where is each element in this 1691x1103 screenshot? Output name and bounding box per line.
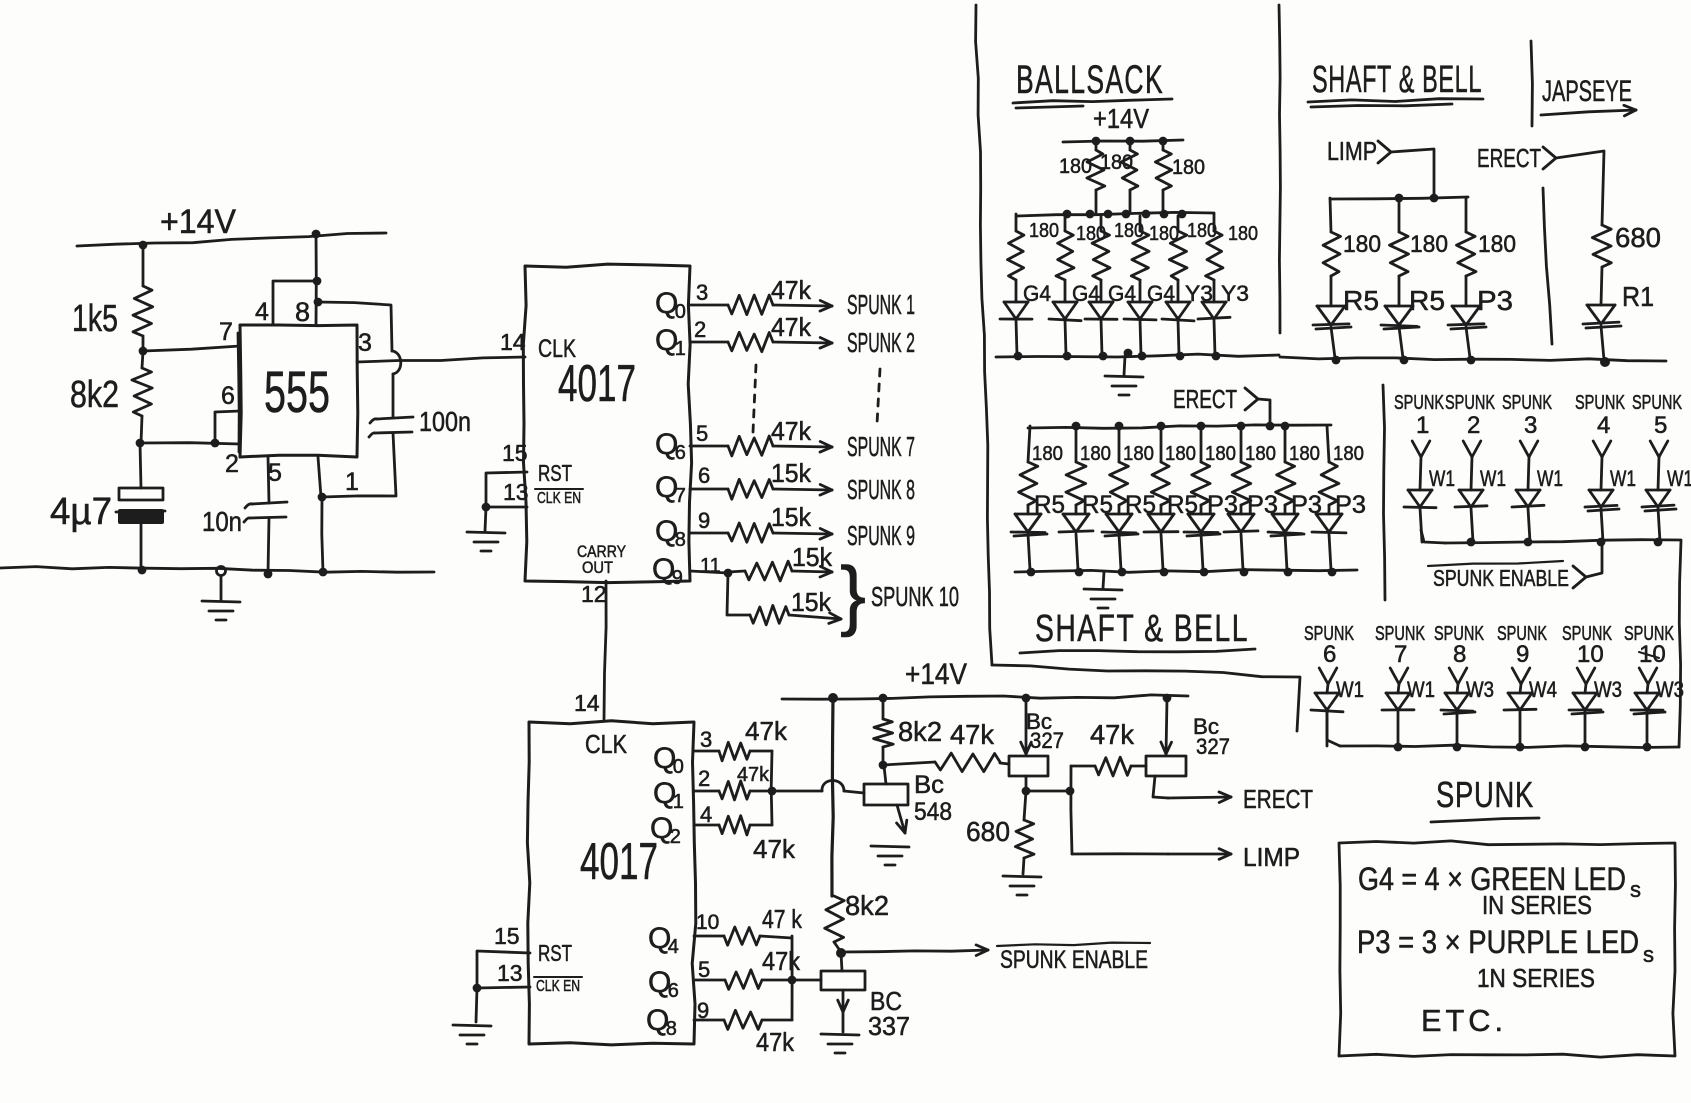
pin 4 wire — [273, 281, 316, 325]
junction shaft bus 1 — [1395, 194, 1404, 203]
junction 4u7 / 0V — [138, 566, 147, 575]
junction Q0-Q2 node — [768, 787, 777, 796]
resistor R 47k to BC327-1 — [883, 753, 1009, 772]
svg-text:LIMP: LIMP — [1243, 842, 1300, 872]
chevron SPUNK ENABLE — [1573, 566, 1586, 588]
svg-text:4017: 4017 — [580, 833, 658, 891]
svg-text:s: s — [1643, 942, 1654, 967]
wire LIMP output — [1072, 852, 1168, 855]
label SPUNK title — [1436, 774, 1534, 815]
svg-text:47k: 47k — [771, 416, 812, 446]
label legend G4 line — [1358, 861, 1641, 902]
svg-text:R5: R5 — [1409, 285, 1445, 316]
labels 180 (shaft top) — [1343, 231, 1516, 258]
svg-text:15k: 15k — [791, 587, 832, 617]
svg-text:47k: 47k — [950, 719, 995, 750]
svg-text:6: 6 — [675, 442, 686, 464]
wire BC548 collector — [884, 766, 886, 784]
U3 Q4 via 47k — [648, 904, 803, 958]
svg-text:8k2: 8k2 — [898, 716, 942, 747]
wire 10n to 0V — [268, 518, 269, 573]
svg-text:180: 180 — [1205, 443, 1236, 465]
svg-text:CLK: CLK — [585, 729, 628, 759]
resistor R 47k to BC327-2 — [1095, 757, 1146, 776]
svg-text:SPUNK 2: SPUNK 2 — [847, 327, 915, 358]
labels 180 (shaft bottom) — [1032, 443, 1364, 465]
LED W1 SPUNK 4 — [1575, 392, 1636, 542]
svg-text:LIMP: LIMP — [1327, 136, 1377, 166]
label SHAFT & BELL title — [1312, 59, 1482, 101]
label ERECT (shaft top) — [1477, 143, 1541, 173]
label 4u7 — [50, 491, 112, 533]
junctions ballsack rail — [1092, 137, 1168, 146]
wire 555 pin3 output to CLK — [357, 357, 525, 362]
LED string P3 #8 (shaft bottom) with 180 — [1312, 426, 1366, 576]
label 555 — [264, 360, 330, 425]
output Q1 row: resistor 47k to SPUNK 2 — [655, 312, 915, 360]
LED string G4 #3 (ballsack) with 180 — [1085, 216, 1136, 360]
svg-text:8k2: 8k2 — [845, 890, 889, 921]
brace SPUNK 10 — [840, 550, 866, 638]
svg-text:15k: 15k — [771, 502, 812, 532]
svg-text:10: 10 — [696, 911, 719, 934]
label 8k2 — [70, 374, 119, 416]
LED string Y3 #6 (ballsack) with 180 — [1198, 214, 1249, 360]
ground left rail — [202, 567, 240, 621]
label SPUNK ENABLE (right) — [1428, 561, 1569, 591]
labels 180 (ballsack columns) — [1029, 220, 1258, 245]
resistor R 680 (japseye) — [1592, 225, 1611, 305]
label legend P3 line — [1357, 924, 1654, 967]
wire mid bus — [1028, 425, 1331, 428]
transistor BC337 emitter arrow — [838, 990, 849, 1032]
svg-text:180: 180 — [1100, 151, 1133, 174]
label pin 14 — [500, 329, 526, 355]
svg-text:8: 8 — [666, 1018, 677, 1040]
output Q0 row: resistor 47k to SPUNK 1 — [655, 275, 915, 323]
svg-text:180: 180 — [1228, 223, 1258, 245]
label 8k2 (enable) — [845, 890, 889, 921]
frame bottom edge — [992, 665, 1300, 731]
label ERECT output — [1243, 784, 1313, 814]
label legend in series 2 — [1477, 963, 1595, 993]
junctions ballsack mid bus — [1063, 210, 1187, 219]
chevron LIMP — [1378, 141, 1391, 163]
label 47k (to BC327-1) — [950, 719, 995, 750]
svg-text:JAPSEYE: JAPSEYE — [1542, 75, 1632, 108]
svg-text:SPUNK: SPUNK — [1575, 392, 1625, 414]
wire RST U2 — [486, 472, 527, 507]
svg-text:9: 9 — [698, 508, 710, 533]
junction RST/CLKEN U2 — [482, 503, 491, 512]
wire enable node to BC337 — [841, 953, 842, 971]
junction rail/8k2-548 — [879, 694, 888, 703]
junction rail/BC327-2 — [1163, 694, 1172, 703]
junction pin2/6 wire — [211, 439, 220, 448]
svg-text:ETC.: ETC. — [1421, 1003, 1507, 1038]
wire 100n upper lead — [392, 374, 395, 417]
svg-text:2: 2 — [694, 317, 706, 342]
svg-text:P3: P3 — [1477, 285, 1513, 316]
U3 Q6 via 47k — [648, 946, 801, 1002]
svg-text:8: 8 — [675, 529, 686, 551]
output Q6 row: resistor 47k to SPUNK 7 — [655, 416, 915, 464]
wire limp node to 47k-2 — [1071, 765, 1095, 768]
svg-text:SPUNK 1: SPUNK 1 — [847, 289, 915, 320]
wire spunk bus row2 — [1327, 711, 1679, 748]
label pin 8 — [295, 297, 310, 327]
label legend in series 1 — [1482, 890, 1592, 920]
label 1k5 — [72, 298, 118, 340]
ground ballsack — [1105, 356, 1143, 395]
LED W1 SPUNK 2 — [1445, 392, 1506, 542]
transistor Q BC327-1 body — [1009, 756, 1048, 776]
svg-text:47k: 47k — [762, 946, 801, 976]
svg-text:180: 180 — [1165, 443, 1196, 465]
junctions mid bus — [1072, 422, 1290, 431]
wire 100n to pin1 node — [322, 433, 396, 497]
transistor Q BC548 body — [864, 784, 908, 805]
LED string R5 #3 (shaft bottom) with 180 — [1102, 426, 1156, 576]
label LIMP (shaft) — [1327, 136, 1377, 166]
label pin 3 — [358, 329, 372, 357]
wire +14V top rail — [77, 233, 386, 246]
junction rail/BC327-1 — [1022, 694, 1031, 703]
label pin 4 — [255, 298, 269, 326]
svg-text:180: 180 — [1149, 223, 1179, 245]
wire spunk bus row1 — [1421, 530, 1681, 543]
LED string G4 #2 (ballsack) with 180 — [1049, 216, 1100, 360]
IC U1 555 box — [238, 325, 358, 457]
svg-text:4: 4 — [700, 802, 712, 827]
svg-text:47k: 47k — [745, 716, 788, 746]
junction top rail / 1k5 — [139, 241, 148, 250]
label pin 15 (U3) — [494, 923, 520, 949]
svg-text:3: 3 — [358, 329, 372, 357]
svg-text:13: 13 — [503, 479, 529, 505]
junction limp node — [1066, 787, 1075, 796]
underline SPUNK — [1431, 818, 1539, 822]
junction pin4/pin8 node — [313, 277, 322, 286]
label +14V supply — [160, 203, 236, 241]
frame left border — [976, 5, 992, 665]
svg-text:8k2: 8k2 — [70, 374, 119, 416]
IC U3 4017 box — [527, 721, 695, 1045]
wire ballsack mid bus — [1017, 212, 1214, 216]
svg-text:3: 3 — [700, 727, 712, 752]
capacitor C 4u7 electrolytic — [116, 443, 165, 570]
svg-text:1: 1 — [675, 338, 686, 360]
LED W3 SPUNK 10 (row2) — [1562, 623, 1622, 746]
svg-text:SPUNK 10: SPUNK 10 — [871, 581, 959, 612]
svg-text:7: 7 — [1394, 641, 1407, 668]
svg-text:13: 13 — [497, 960, 523, 986]
svg-text:180: 180 — [1245, 443, 1276, 465]
svg-text:6: 6 — [668, 980, 679, 1002]
svg-text:180: 180 — [1343, 231, 1381, 258]
label 8k2 (BC548) — [898, 716, 942, 747]
wire ERECT mid to bus — [1258, 399, 1270, 426]
junction pin8 / 100n branch — [314, 298, 323, 307]
junction RST/CLKEN U3 — [473, 984, 482, 993]
svg-text:P3: P3 — [1335, 491, 1366, 519]
svg-text:W1: W1 — [1429, 466, 1455, 491]
label pin 5 — [268, 459, 282, 487]
svg-text:100n: 100n — [419, 406, 471, 437]
LED W1 SPUNK 5 — [1632, 392, 1691, 542]
svg-text:+14V: +14V — [905, 658, 967, 691]
label pin 1 — [345, 468, 359, 496]
svg-text:9: 9 — [672, 567, 683, 589]
label CLK EN (U2) — [535, 489, 583, 507]
svg-text:SPUNK ENABLE: SPUNK ENABLE — [1000, 946, 1148, 974]
label pin 15 — [502, 440, 528, 466]
hop over enable line — [822, 781, 844, 792]
svg-text:327: 327 — [1030, 728, 1064, 753]
svg-text:10: 10 — [1577, 641, 1604, 668]
svg-text:47k: 47k — [737, 764, 770, 786]
svg-text:6: 6 — [1323, 641, 1336, 668]
dashed continuation right — [877, 369, 880, 424]
frame divider japseye — [1531, 41, 1532, 126]
underline BALLSACK — [1013, 99, 1172, 108]
underline SHAFT & BELL — [1308, 99, 1483, 107]
transistor Q BC337 body — [821, 971, 865, 990]
svg-text:W1: W1 — [1667, 466, 1691, 491]
capacitor C 100n — [369, 417, 413, 437]
wire collector to limp node — [1026, 790, 1070, 793]
svg-text:7: 7 — [675, 485, 686, 507]
svg-text:47k: 47k — [771, 275, 812, 305]
svg-text:14: 14 — [574, 690, 600, 716]
LED string Y3 #5 (ballsack) with 180 — [1162, 216, 1213, 360]
resistor R 8k2 — [132, 351, 152, 443]
label CLK (U2) — [538, 335, 576, 363]
label BC337 — [868, 986, 910, 1041]
svg-text:180: 180 — [1172, 156, 1205, 179]
svg-text:SHAFT & BELL: SHAFT & BELL — [1312, 59, 1482, 101]
label pin 2 — [225, 450, 239, 478]
wire mid ground rail — [1015, 570, 1357, 573]
wire LIMP to bus — [1391, 149, 1434, 198]
svg-text:SPUNK 8: SPUNK 8 — [847, 474, 915, 505]
arrow ERECT output — [1168, 792, 1231, 803]
svg-text:180: 180 — [1187, 220, 1217, 242]
svg-text:47k: 47k — [756, 1027, 795, 1057]
junction ground rail extra — [1124, 349, 1133, 358]
svg-text:548: 548 — [914, 798, 952, 826]
resistor R 1k5 — [133, 245, 153, 350]
wire ballsack ground rail — [996, 354, 1279, 357]
svg-text:47k: 47k — [1090, 719, 1135, 750]
svg-text:14: 14 — [500, 329, 526, 355]
junction 8k2/47k/collector — [879, 761, 888, 770]
svg-text:CLK EN: CLK EN — [537, 490, 581, 507]
pin 5 wire upper — [268, 457, 269, 503]
svg-text:1k5: 1k5 — [72, 298, 118, 340]
svg-text:6: 6 — [221, 382, 235, 410]
svg-text:5: 5 — [696, 421, 708, 446]
svg-text:}: } — [840, 550, 866, 638]
wire carry out to U3 clock — [604, 581, 606, 719]
svg-text:15: 15 — [494, 923, 520, 949]
label LIMP output — [1243, 842, 1300, 872]
svg-text:SPUNK 7: SPUNK 7 — [847, 431, 915, 462]
resistors 3x 180 (ballsack top) — [1087, 141, 1172, 213]
svg-text:7: 7 — [219, 318, 233, 346]
svg-text:W1: W1 — [1537, 466, 1563, 491]
svg-text:W3: W3 — [1594, 677, 1622, 702]
svg-text:BALLSACK: BALLSACK — [1016, 58, 1164, 102]
wire RST U3 — [477, 951, 530, 988]
ground 680 — [1003, 876, 1041, 895]
LED W1 SPUNK 6 (row2) — [1304, 623, 1364, 746]
junction 10n / 0V — [264, 570, 273, 579]
labels 180 top row — [1059, 151, 1205, 179]
label BC548 — [914, 771, 952, 826]
resistor R 8k2 (enable) — [825, 896, 845, 952]
svg-text:W1: W1 — [1407, 677, 1435, 702]
LED string G4 #1 (ballsack) with 180 — [1000, 214, 1051, 360]
wire 0V bottom rail — [0, 567, 434, 573]
svg-text:R5: R5 — [1034, 491, 1065, 519]
svg-text:10: 10 — [1639, 641, 1666, 668]
svg-text:SHAFT & BELL: SHAFT & BELL — [1035, 608, 1249, 650]
label 47k (to BC327-2) — [1090, 719, 1135, 750]
svg-text:15: 15 — [502, 440, 528, 466]
LED R1 (japseye) — [1583, 305, 1621, 367]
svg-text:SPUNK: SPUNK — [1436, 774, 1534, 815]
svg-text:P3 = 3 × PURPLE LED: P3 = 3 × PURPLE LED — [1357, 924, 1639, 960]
label +14V (U3 rail) — [905, 658, 967, 691]
pin 1 stub — [318, 457, 321, 497]
svg-text:W4: W4 — [1529, 677, 1557, 702]
label CLK (U3) — [585, 729, 628, 759]
svg-text:8: 8 — [1453, 641, 1466, 668]
label RST (U2) — [538, 460, 572, 486]
svg-text:1N SERIES: 1N SERIES — [1477, 963, 1595, 993]
wire shaft/japseye ground rail — [1280, 357, 1666, 361]
svg-text:5: 5 — [268, 459, 282, 487]
svg-text:IN SERIES: IN SERIES — [1482, 890, 1592, 920]
LED string G4 #4 (ballsack) with 180 — [1124, 216, 1175, 360]
svg-text:W3: W3 — [1466, 677, 1494, 702]
svg-text:180: 180 — [1029, 220, 1059, 242]
pin 8 wire — [315, 234, 318, 325]
label BALLSACK title — [1016, 58, 1164, 102]
svg-text:180: 180 — [1059, 155, 1092, 178]
label pin 14 (U3) — [574, 690, 600, 716]
underline SHAFT & BELL bottom — [1020, 649, 1255, 653]
svg-text:47 k: 47 k — [762, 904, 803, 934]
LED string R5 #1 (shaft bottom) with 180 — [1011, 426, 1065, 576]
output Q7 row: resistor 15k to SPUNK 8 — [655, 458, 915, 507]
junction Q4-Q8 node — [788, 976, 797, 985]
svg-text:680: 680 — [966, 816, 1010, 847]
svg-text:4: 4 — [1597, 412, 1610, 439]
svg-text:180: 180 — [1123, 443, 1154, 465]
label pin 13 (U3) — [497, 960, 523, 986]
dashed continuation left — [753, 365, 756, 432]
svg-text:CLK EN: CLK EN — [536, 978, 580, 995]
LED W3 SPUNK 8 (row2) — [1434, 623, 1494, 746]
junction enable node — [836, 948, 846, 958]
junction shaft bus 2 — [1430, 194, 1439, 203]
output Q8 row: resistor 15k to SPUNK 9 — [655, 502, 915, 551]
LED string P3 #7 (shaft bottom) with 180 — [1268, 426, 1322, 576]
svg-text:337: 337 — [868, 1011, 910, 1041]
arrow LIMP output — [1168, 849, 1231, 860]
LED string R5 #4 (shaft bottom) with 180 — [1144, 426, 1198, 576]
svg-text:W3: W3 — [1656, 677, 1684, 702]
label 100n — [419, 406, 471, 437]
wire ERECT to 680 — [1556, 151, 1604, 225]
chevron ERECT mid — [1245, 388, 1258, 410]
label 680 (load) — [966, 816, 1010, 847]
svg-text:180: 180 — [1032, 443, 1063, 465]
wire CLK EN U3 — [477, 987, 530, 988]
LED W1 SPUNK 3 — [1502, 392, 1563, 542]
svg-text:4: 4 — [668, 936, 679, 958]
label RST (U3) — [538, 940, 572, 966]
label BC327-1 — [1026, 709, 1064, 753]
svg-text:ERECT: ERECT — [1243, 784, 1313, 814]
wire/emitter arrow BC327-1 — [1021, 699, 1032, 754]
junction rail/8k2-enable — [828, 693, 838, 703]
LED W1 SPUNK 1 — [1394, 392, 1455, 542]
svg-text:W1: W1 — [1610, 466, 1636, 491]
svg-text:4: 4 — [255, 298, 269, 326]
svg-text:s: s — [1630, 877, 1641, 902]
svg-text:3: 3 — [1524, 412, 1537, 439]
svg-text:1: 1 — [345, 468, 359, 496]
wire Q node to BC337 base — [792, 979, 821, 982]
label ERECT (mid) — [1173, 384, 1237, 414]
ground U3 reset — [453, 988, 491, 1044]
junctions spunk bus row1 — [1467, 538, 1663, 547]
svg-text:180: 180 — [1410, 231, 1448, 258]
label SPUNK ENABLE output — [997, 943, 1150, 974]
svg-text:680: 680 — [1615, 222, 1661, 253]
label pin 13 — [503, 479, 529, 505]
wire/emitter arrow BC327-2 — [1161, 699, 1172, 754]
stray divider line — [1543, 188, 1552, 344]
svg-text:2: 2 — [1467, 412, 1480, 439]
wire shaft bus — [1330, 197, 1468, 199]
svg-text:+14V: +14V — [160, 203, 236, 241]
wire pin1 to 0V — [322, 497, 323, 572]
label JAPSEYE title — [1542, 75, 1632, 108]
resistor R 680 (collector load) — [1015, 791, 1034, 874]
label pin 12 — [581, 581, 607, 607]
svg-text:G4: G4 — [1023, 281, 1051, 306]
label +14V (ballsack) — [1093, 103, 1149, 134]
svg-text:RST: RST — [538, 940, 572, 966]
label 4017 (U3) — [580, 833, 658, 891]
svg-text:12: 12 — [581, 581, 607, 607]
LED string R5 (shaft top) with 180 — [1381, 198, 1445, 364]
wire enable chevron to bus — [1586, 543, 1602, 577]
svg-text:R1: R1 — [1622, 281, 1654, 312]
IC U2 4017 box — [523, 264, 691, 582]
svg-text:10n: 10n — [202, 506, 242, 537]
wire base node to hop — [772, 790, 822, 793]
wire BC327-1 collector — [1025, 776, 1028, 790]
LED string R5 #2 (shaft bottom) with 180 — [1059, 426, 1113, 576]
wire hop to BC548 base — [844, 791, 864, 793]
label pin 6 — [221, 382, 235, 410]
svg-text:47k: 47k — [771, 312, 812, 342]
